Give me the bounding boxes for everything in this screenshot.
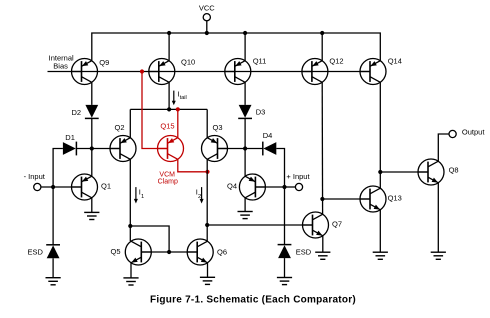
transistor Q2: [110, 136, 136, 162]
svg-text:Clamp: Clamp: [158, 179, 178, 186]
svg-text:D1: D1: [65, 133, 75, 142]
ground Q8: [431, 252, 446, 259]
transistor Q11: [225, 59, 251, 85]
diode D2: [85, 105, 99, 119]
wire I1 branch (Q2 collector to Q5): [129, 159, 131, 241]
wire top supply rail: [92, 33, 381, 61]
junction rail-Q12: [320, 31, 324, 35]
svg-text:Q15: Q15: [160, 122, 174, 131]
junction node A: [90, 146, 94, 150]
wire D4 cathode to node B: [245, 148, 263, 150]
transistor Q1: [72, 174, 98, 200]
wire Q7 emitter: [322, 236, 324, 252]
wire D2 to node A: [91, 118, 93, 148]
wire -Input to Q1 base: [41, 186, 82, 188]
ground ESD right: [277, 278, 292, 285]
right ESD diode: [278, 187, 292, 278]
diode D4: [263, 142, 277, 156]
label VCM Clamp: [158, 172, 178, 186]
transistor Q9: [72, 59, 98, 85]
transistor Q8: [418, 159, 444, 185]
red wire Q15 collector to I2 node: [178, 159, 208, 172]
wire tail rail: [130, 108, 207, 110]
junction +Input node: [282, 185, 286, 189]
svg-text:Q10: Q10: [181, 58, 195, 67]
wire Q8 base: [380, 171, 428, 173]
junction Q13 collector-Q8 base: [378, 170, 382, 174]
internal bias line: [48, 71, 371, 73]
wire Q3 emitter drop: [206, 109, 208, 137]
tail current arrow Itail: [172, 91, 176, 106]
- Input terminal: [34, 183, 41, 190]
current arrow I1: [134, 187, 138, 203]
transistor Q12: [302, 59, 328, 85]
svg-text:Q13: Q13: [388, 193, 402, 202]
junction tail-Q10: [167, 107, 171, 111]
transistor Q7: [303, 212, 329, 238]
wire VCC drop: [206, 21, 208, 33]
junction mirror bases: [167, 250, 171, 254]
ground Q1: [84, 212, 99, 219]
svg-text:tail: tail: [180, 95, 187, 101]
wire D4 anode to input branch: [276, 149, 284, 188]
svg-text:D2: D2: [72, 108, 82, 117]
svg-text:VCM: VCM: [159, 172, 175, 179]
wire I2 branch (Q3 collector to Q6): [206, 159, 208, 241]
svg-text:2: 2: [198, 194, 201, 200]
label I2: [196, 188, 201, 201]
junction rail-Q11: [243, 31, 247, 35]
svg-text:D4: D4: [263, 131, 273, 140]
wire node B to Q3 base: [218, 148, 246, 150]
junction tail-Q15 (red): [176, 107, 180, 111]
svg-text:D3: D3: [256, 107, 266, 116]
svg-text:- Input: - Input: [24, 172, 46, 181]
wire Q10 emitter: [168, 33, 170, 61]
svg-text:Q8: Q8: [449, 166, 459, 175]
svg-text:Q14: Q14: [388, 57, 402, 66]
wire +Input to junction: [285, 186, 296, 188]
svg-text:Bias: Bias: [53, 62, 68, 71]
transistor Q3: [202, 136, 228, 162]
wire first stage out to Q7 base: [207, 224, 312, 226]
svg-text:Q7: Q7: [332, 219, 342, 228]
transistor Q15 (VCM clamp): [158, 136, 184, 162]
svg-text:+ Input: + Input: [286, 172, 310, 181]
wire Q4 base to +Input node: [255, 186, 284, 188]
wire Q14 collector down to Q13: [379, 82, 381, 188]
ground Q4: [238, 212, 253, 219]
wire Q8 emitter: [437, 183, 439, 252]
ground Q6: [200, 277, 215, 284]
left ESD diode: [46, 187, 60, 278]
wire Q2 emitter drop: [129, 109, 131, 137]
junction rail-Q10: [167, 31, 171, 35]
label I1: [139, 188, 144, 201]
+ Input terminal: [295, 183, 302, 190]
transistor Q10: [149, 59, 175, 85]
wire Q12 emitter: [321, 33, 323, 61]
wire Q11 collector to D3: [244, 82, 246, 105]
svg-text:Figure 7-1. Schematic (Each Co: Figure 7-1. Schematic (Each Comparator): [150, 295, 356, 306]
svg-text:ESD: ESD: [296, 248, 312, 257]
wire Q13 base: [322, 198, 370, 200]
svg-text:ESD: ESD: [28, 247, 44, 256]
junction bias-tap (red): [140, 69, 144, 73]
wire Q13 emitter: [379, 210, 381, 252]
svg-text:Q9: Q9: [99, 58, 109, 67]
svg-text:Q2: Q2: [115, 123, 125, 132]
junction node B: [243, 146, 247, 150]
transistor Q14: [360, 59, 386, 85]
wire Q11 emitter: [244, 33, 246, 61]
svg-text:VCC: VCC: [199, 4, 215, 13]
diode D3: [238, 105, 252, 119]
current arrow I2: [200, 187, 204, 203]
wire Q5-Q6 base tie: [141, 251, 197, 253]
svg-text:Q1: Q1: [101, 181, 111, 190]
wire D1 anode to input branch: [53, 149, 63, 188]
wire Q6 emitter: [207, 263, 209, 278]
VCC terminal: [203, 14, 210, 21]
diode D1: [63, 142, 77, 156]
junction Q7 collector-Q13 base: [320, 197, 324, 201]
Internal Bias label: [49, 54, 74, 71]
ground Q7: [315, 252, 330, 259]
red wire Q15 emitter: [177, 109, 179, 137]
wire D3 to node B: [244, 118, 246, 148]
junction -Input node: [51, 185, 55, 189]
wire Q10 collector tail: [168, 82, 170, 109]
Output terminal: [449, 130, 456, 137]
svg-text:1: 1: [141, 194, 144, 200]
ground ESD left: [46, 278, 61, 285]
wire node A row (D1 cathode to Q2 base): [77, 148, 120, 150]
wire Q4 emitter up to node B: [244, 149, 246, 177]
svg-text:Q5: Q5: [111, 247, 121, 256]
transistor Q6: [187, 239, 213, 265]
wire Q12 collector down to Q7: [321, 82, 323, 214]
wire Q1 collector down: [91, 198, 93, 213]
wire Q4 collector down: [244, 198, 246, 212]
svg-text:Q4: Q4: [227, 181, 237, 190]
wire Q5 emitter: [130, 263, 132, 278]
junction rail-VCC: [205, 31, 209, 35]
transistor Q5: [125, 239, 151, 265]
label Itail: [178, 90, 187, 102]
svg-text:Q3: Q3: [213, 123, 223, 132]
ground Q13: [373, 252, 388, 259]
junction I1-mirror: [128, 224, 132, 228]
wire Q9 collector to D2: [91, 82, 93, 105]
junction I2-second stage: [205, 223, 209, 227]
svg-text:Q6: Q6: [217, 247, 227, 256]
red wire bias tap to Q15 base: [142, 72, 168, 149]
transistor Q4: [239, 174, 265, 200]
svg-text:Q11: Q11: [253, 57, 267, 66]
wire Q1 emitter up to node A: [91, 149, 93, 177]
transistor Q13: [360, 186, 386, 212]
junction VCM clamp-I2 (red): [205, 170, 209, 174]
wire mirror tie (I1 node to bases): [130, 226, 169, 252]
ground Q5: [123, 278, 138, 285]
wire Q8 collector to output: [438, 134, 449, 161]
svg-text:Output: Output: [462, 127, 485, 136]
svg-text:Q12: Q12: [329, 57, 343, 66]
